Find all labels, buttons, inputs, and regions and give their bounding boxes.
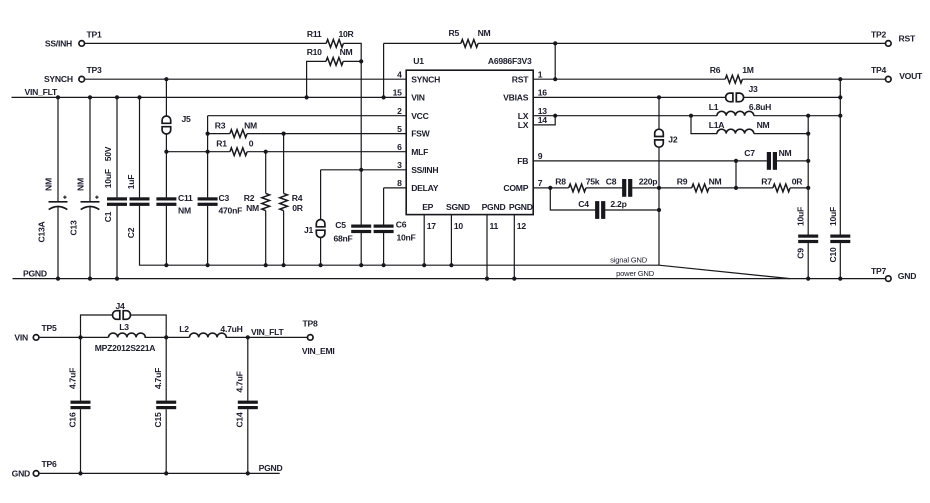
svg-text:C1: C1 <box>103 211 113 222</box>
testpoint TP6 <box>33 471 39 477</box>
svg-text:LX: LX <box>518 120 529 130</box>
wire output node vertical C9 <box>807 116 809 279</box>
svg-text:VCC: VCC <box>411 111 428 121</box>
svg-text:C3: C3 <box>219 193 230 203</box>
svg-text:50V: 50V <box>103 146 113 161</box>
svg-text:R8: R8 <box>555 176 566 186</box>
svg-text:1: 1 <box>538 70 543 80</box>
svg-text:12: 12 <box>517 221 527 231</box>
svg-text:FSW: FSW <box>411 129 430 139</box>
wire VBIAS row through J3 to VOUT node <box>533 96 840 98</box>
junction dots bottom PGND row <box>78 471 250 475</box>
svg-text:TP4: TP4 <box>871 65 886 75</box>
wire SGND pin 10 stub <box>450 215 452 266</box>
svg-text:J2: J2 <box>668 135 678 145</box>
svg-text:7: 7 <box>538 178 543 188</box>
svg-text:DELAY: DELAY <box>411 183 439 193</box>
svg-text:C11: C11 <box>178 193 193 203</box>
svg-text:PGND: PGND <box>509 202 533 212</box>
junction dots VBIAS/J2 <box>657 95 661 99</box>
svg-text:NM: NM <box>178 206 191 216</box>
svg-text:0R: 0R <box>792 176 804 186</box>
resistor R6 1M <box>725 75 742 83</box>
junction dots VIN_FLT bus <box>56 95 386 99</box>
wire C4 branch <box>550 188 659 210</box>
svg-text:L1: L1 <box>709 102 719 112</box>
resistor R2 NM <box>262 193 270 210</box>
svg-text:U1: U1 <box>413 56 424 66</box>
wire C15 vertical <box>165 337 167 473</box>
svg-text:VBIAS: VBIAS <box>503 93 529 103</box>
wire VIN row: TP5 to TP8 through L3 and L2 <box>39 336 308 338</box>
svg-text:5: 5 <box>397 124 402 134</box>
svg-text:VOUT: VOUT <box>899 71 923 81</box>
svg-text:VIN_EMI: VIN_EMI <box>302 346 335 356</box>
capacitor C15 4.7uF <box>156 401 176 410</box>
svg-text:VIN: VIN <box>14 332 28 342</box>
svg-text:C10: C10 <box>828 247 838 262</box>
svg-text:TP8: TP8 <box>302 318 317 328</box>
testpoint TP2 <box>886 41 892 47</box>
svg-text:4.7uF: 4.7uF <box>235 371 245 392</box>
svg-text:NM: NM <box>709 176 722 186</box>
wire FSW net: R3 row to pin 5 <box>208 133 407 135</box>
wire J4 bypass loop <box>81 315 167 337</box>
svg-text:R10: R10 <box>307 47 322 57</box>
wire R4 vertical FSW to signal GND <box>283 134 285 266</box>
svg-text:8: 8 <box>397 178 402 188</box>
svg-text:TP2: TP2 <box>871 29 886 39</box>
junction dots signal GND <box>164 263 453 267</box>
capacitor C8 220p <box>622 179 632 197</box>
svg-text:NM: NM <box>44 178 54 191</box>
wire MLF net: J5 bottom, R1 row to pin 6 <box>166 151 406 153</box>
testpoint TP5 <box>33 335 39 341</box>
svg-text:EP: EP <box>422 202 433 212</box>
svg-text:C6: C6 <box>396 220 407 230</box>
testpoint TP7 <box>886 276 892 282</box>
resistor R4 0R <box>280 193 288 210</box>
svg-text:10uF: 10uF <box>103 169 113 188</box>
svg-text:C13A: C13A <box>37 221 47 242</box>
svg-text:NM: NM <box>757 120 770 130</box>
svg-text:0R: 0R <box>292 203 304 213</box>
svg-text:TP3: TP3 <box>86 65 101 75</box>
svg-text:R11: R11 <box>307 29 322 39</box>
wire COMP row: R8 C8 R9 R7 <box>533 187 808 189</box>
svg-text:J1: J1 <box>304 225 314 235</box>
svg-text:PGND: PGND <box>23 268 47 278</box>
svg-text:R7: R7 <box>761 176 772 186</box>
junction dots VOUT vertical <box>838 77 842 118</box>
svg-text:SYNCH: SYNCH <box>44 74 73 84</box>
svg-text:4.7uF: 4.7uF <box>67 368 77 389</box>
jumper J5 <box>162 116 171 134</box>
svg-text:R9: R9 <box>677 176 688 186</box>
capacitor C1 <box>107 197 127 206</box>
capacitor C2 <box>130 197 150 206</box>
wire VOUT vertical C10 <box>839 79 841 278</box>
svg-text:L3: L3 <box>119 322 129 332</box>
svg-text:R4: R4 <box>292 193 303 203</box>
svg-text:11: 11 <box>490 221 499 231</box>
svg-text:C13: C13 <box>69 220 79 235</box>
svg-text:10uF: 10uF <box>828 207 838 226</box>
svg-text:R1: R1 <box>216 139 227 149</box>
junction dots LX/L1A/C7/FB <box>553 114 810 163</box>
capacitor C9 10uF <box>798 235 818 244</box>
svg-text:R6: R6 <box>710 65 721 75</box>
wire J5 vertical: SYNCH row down to MLF row <box>165 79 167 265</box>
svg-text:NM: NM <box>478 28 491 38</box>
wire SYNCH net: TP3 to pin 4 <box>85 78 407 80</box>
jumper J1 <box>316 220 325 238</box>
wire VIN_FLT bus to pin 15 <box>12 96 407 98</box>
wire C14 vertical <box>247 337 249 473</box>
wire C13 vertical <box>89 97 91 278</box>
svg-text:TP1: TP1 <box>86 29 101 39</box>
svg-text:PGND: PGND <box>259 463 283 473</box>
junction dots VIN row <box>78 335 250 339</box>
jumper J2 <box>655 129 664 147</box>
svg-text:C15: C15 <box>153 412 163 427</box>
resistor R11 10R <box>326 40 343 48</box>
inductor L1 6.8uH <box>717 111 754 115</box>
svg-text:C2: C2 <box>126 227 136 238</box>
svg-text:6.8uH: 6.8uH <box>749 102 771 112</box>
svg-text:2.2p: 2.2p <box>610 199 626 209</box>
svg-text:470nF: 470nF <box>219 206 243 216</box>
wire signal GND slope to power GND <box>659 265 790 278</box>
svg-text:MPZ2012S221A: MPZ2012S221A <box>95 343 156 353</box>
testpoint TP4 <box>886 76 892 82</box>
svg-text:SGND: SGND <box>446 202 470 212</box>
svg-text:6: 6 <box>397 142 402 152</box>
svg-text:GND: GND <box>12 468 30 478</box>
junction dots R10/R11 node and SS/INH <box>359 59 363 172</box>
svg-text:R3: R3 <box>215 120 226 130</box>
resistor R10 NM <box>326 58 343 66</box>
svg-text:10R: 10R <box>338 29 354 39</box>
svg-text:16: 16 <box>538 88 548 98</box>
wire J2 vertical VBIAS to COMP node to signal GND <box>658 97 660 265</box>
svg-text:NM: NM <box>244 120 257 130</box>
svg-text:68nF: 68nF <box>333 234 352 244</box>
resistor R5 NM <box>461 40 478 48</box>
svg-text:COMP: COMP <box>503 183 528 193</box>
testpoint TP1 <box>79 41 85 47</box>
svg-text:2: 2 <box>397 106 402 116</box>
svg-text:NM: NM <box>779 148 792 158</box>
svg-text:J3: J3 <box>749 84 759 94</box>
svg-text:4.7uH: 4.7uH <box>220 324 242 334</box>
svg-text:10: 10 <box>454 221 464 231</box>
junction dots COMP row <box>548 186 810 212</box>
svg-text:9: 9 <box>538 151 543 161</box>
svg-text:C14: C14 <box>235 412 245 427</box>
junction dots FSW/MLF verticals <box>164 132 285 154</box>
svg-text:10uF: 10uF <box>796 207 806 226</box>
resistor R9 NM <box>692 184 709 192</box>
svg-text:FB: FB <box>517 156 528 166</box>
wire C16 vertical <box>80 337 82 473</box>
op-amp regulator U1 A6986F3V3 body <box>406 70 533 214</box>
svg-text:L1A: L1A <box>709 120 725 130</box>
wire bottom PGND row <box>39 472 280 474</box>
svg-text:TP6: TP6 <box>41 459 56 469</box>
svg-text:15: 15 <box>393 88 403 98</box>
wire RST/TP2 net: R5 row <box>384 43 886 97</box>
svg-text:SS/INH: SS/INH <box>411 165 438 175</box>
resistor R1 0 <box>230 148 247 156</box>
wire C1 vertical <box>116 97 118 278</box>
svg-text:1uF: 1uF <box>126 175 136 190</box>
svg-text:1M: 1M <box>742 65 754 75</box>
svg-text:0: 0 <box>249 139 254 149</box>
resistor R7 0R <box>773 184 790 192</box>
jumper J3 <box>726 93 744 102</box>
inductor L3 MPZ2012S221A <box>109 333 146 337</box>
svg-text:14: 14 <box>538 115 548 125</box>
jumper J4 <box>113 311 131 320</box>
inductor L2 4.7uH <box>190 333 227 337</box>
svg-text:RST: RST <box>512 74 529 84</box>
capacitor C13A (electrolytic NM) <box>49 196 68 210</box>
svg-text:3: 3 <box>397 160 402 170</box>
capacitor C7 NM <box>767 152 777 170</box>
wire PGND pin 11 stub <box>486 215 488 279</box>
testpoint TP8 <box>308 335 314 341</box>
svg-text:75k: 75k <box>586 176 600 186</box>
wire power GND bus <box>13 278 886 280</box>
wire FB row through C7 <box>533 160 808 162</box>
svg-text:C4: C4 <box>578 199 589 209</box>
capacitor C13 (electrolytic NM) <box>81 196 100 210</box>
capacitor C10 10uF <box>830 235 850 244</box>
wire LX rows and L1 <box>533 116 840 125</box>
svg-text:C9: C9 <box>796 248 806 259</box>
svg-text:C16: C16 <box>67 412 77 427</box>
svg-text:4.7uF: 4.7uF <box>153 368 163 389</box>
svg-text:PGND: PGND <box>482 202 506 212</box>
svg-text:RST: RST <box>899 34 916 44</box>
svg-text:220p: 220p <box>639 176 658 186</box>
wire SS/INH net: TP1 to R11 and down to pin 3, C5 <box>85 43 362 265</box>
svg-text:SYNCH: SYNCH <box>411 74 440 84</box>
svg-text:MLF: MLF <box>411 147 428 157</box>
svg-text:signal GND: signal GND <box>610 256 648 265</box>
svg-text:NM: NM <box>340 47 353 57</box>
capacitor C6 10nF <box>374 225 394 234</box>
svg-text:NM: NM <box>246 203 259 213</box>
svg-text:C5: C5 <box>335 220 346 230</box>
svg-text:power GND: power GND <box>616 269 655 278</box>
svg-text:VIN_FLT: VIN_FLT <box>251 327 284 337</box>
svg-text:A6986F3V3: A6986F3V3 <box>488 56 532 66</box>
svg-text:SS/INH: SS/INH <box>45 38 72 48</box>
wire RST pin 1 row through R6 to VOUT/TP4 <box>533 78 885 80</box>
wire VCC net: corner down through C3 to signal GND <box>208 116 407 266</box>
svg-text:R5: R5 <box>449 28 460 38</box>
junction dots power GND <box>56 277 843 281</box>
svg-text:NM: NM <box>76 178 86 191</box>
svg-text:TP7: TP7 <box>871 266 886 276</box>
wire R2 vertical MLF to signal GND <box>265 152 267 266</box>
wire R10 branch: VIN_FLT up to R10 left <box>307 61 362 97</box>
svg-text:L2: L2 <box>179 324 189 334</box>
inductor L1A NM <box>717 129 754 133</box>
wire SS/INH row from J1 corner to pin 3 <box>321 170 407 265</box>
svg-text:C8: C8 <box>606 176 617 186</box>
svg-text:10nF: 10nF <box>396 233 415 243</box>
svg-text:VIN: VIN <box>411 93 425 103</box>
wire C13A vertical <box>57 97 59 278</box>
svg-text:4: 4 <box>397 70 402 80</box>
wire FB-COMP link vertical at 736 <box>735 161 737 188</box>
junction dots RST net <box>553 41 557 81</box>
capacitor C4 2.2p <box>595 201 605 219</box>
capacitor C16 4.7uF <box>71 401 91 410</box>
svg-text:J5: J5 <box>182 114 192 124</box>
svg-text:VIN_FLT: VIN_FLT <box>25 87 58 97</box>
svg-text:R2: R2 <box>244 193 255 203</box>
capacitor C11 NM <box>156 197 176 206</box>
capacitor C3 470nF <box>198 197 218 206</box>
wire L1A branch <box>691 116 808 134</box>
resistor R8 75k <box>569 184 586 192</box>
wire EP pin 17 stub <box>423 215 425 266</box>
svg-text:J4: J4 <box>115 301 125 311</box>
resistor R3 NM <box>230 130 247 138</box>
svg-text:GND: GND <box>898 271 916 281</box>
capacitor C14 4.7uF <box>238 401 258 410</box>
wire DELAY net: pin 8 left then down through C6 <box>384 188 407 265</box>
capacitor C5 68nF <box>351 225 371 234</box>
junction dot SYNCH-J5 <box>164 77 168 81</box>
testpoint TP3 <box>79 76 85 82</box>
svg-text:C7: C7 <box>744 148 755 158</box>
svg-text:17: 17 <box>427 221 437 231</box>
wire PGND pin 12 stub <box>513 215 515 279</box>
wire C2 vertical then signal GND corner <box>140 97 660 265</box>
svg-text:TP5: TP5 <box>41 323 56 333</box>
